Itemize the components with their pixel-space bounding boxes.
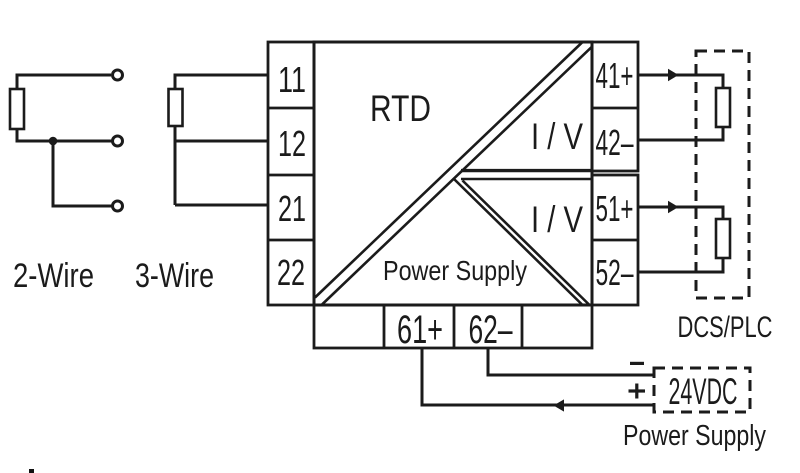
wire: 51+ output to load resistor xyxy=(638,207,723,219)
bottom divider 3 xyxy=(521,305,524,348)
right terminal block lower (51/52) xyxy=(592,175,638,305)
right terminal block upper (41/42) xyxy=(592,42,638,171)
terminal circle (2-wire middle) xyxy=(113,136,123,146)
resistor RTD sensor (3-wire) xyxy=(169,89,183,126)
wire: 3-wire lead to terminal 11 xyxy=(175,75,268,89)
svg-text:42–: 42– xyxy=(596,122,634,163)
wire: 3-wire lead to terminal 12 xyxy=(175,140,268,143)
wire: load resistor back to 42- xyxy=(638,127,723,140)
svg-text:11: 11 xyxy=(278,59,306,100)
DCS/PLC dashed box xyxy=(696,51,749,298)
svg-text:21: 21 xyxy=(278,188,306,229)
24VDC dashed box xyxy=(654,368,750,412)
svg-text:3-Wire: 3-Wire xyxy=(135,257,214,295)
bottom terminal row xyxy=(314,305,592,348)
svg-text:DCS/PLC: DCS/PLC xyxy=(678,311,773,344)
svg-text:I / V: I / V xyxy=(531,115,583,157)
svg-text:RTD: RTD xyxy=(370,87,431,129)
wire: 2-wire middle lead xyxy=(17,129,112,141)
svg-text:12: 12 xyxy=(278,123,306,164)
svg-text:2-Wire: 2-Wire xyxy=(13,257,94,295)
svg-text:51+: 51+ xyxy=(596,188,634,229)
svg-text:Power Supply: Power Supply xyxy=(383,255,527,286)
svg-text:52–: 52– xyxy=(596,252,634,293)
svg-text:41+: 41+ xyxy=(596,55,634,96)
isolator internal diagonal (branch, upper line) xyxy=(454,179,583,305)
isolator internal diagonal (branch, lower line) xyxy=(463,181,590,306)
terminal divider 41/42 xyxy=(592,107,638,110)
label minus sign xyxy=(630,362,644,365)
arrow on 41+ wire xyxy=(668,69,679,81)
wire: 41+ output to load resistor xyxy=(638,75,723,88)
svg-text:61+: 61+ xyxy=(397,308,443,352)
resistor DCS load (lower) xyxy=(716,219,730,258)
label plus sign (horizontal bar) xyxy=(629,389,646,392)
terminal circle (2-wire bottom) xyxy=(113,201,123,211)
svg-text:62–: 62– xyxy=(469,308,513,352)
bottom divider 2 xyxy=(453,305,456,348)
arrow on plus wire xyxy=(554,399,565,411)
wire: 61+ to power supply plus xyxy=(422,348,654,405)
resistor DCS load (upper) xyxy=(716,88,730,127)
isolator internal diagonal (main, lower line) xyxy=(322,46,593,305)
wire: 2-wire top lead xyxy=(17,75,111,89)
left terminal block xyxy=(268,42,314,305)
isolator internal diagonal (main, upper line) xyxy=(315,43,582,298)
label plus sign (vertical bar) xyxy=(635,384,638,399)
svg-text:24VDC: 24VDC xyxy=(669,371,738,412)
terminal circle (2-wire top) xyxy=(113,70,123,80)
artifact mark bottom-left xyxy=(29,469,34,473)
svg-text:I / V: I / V xyxy=(531,198,583,240)
wire: 2-wire bottom lead xyxy=(53,141,112,206)
svg-text:Power Supply: Power Supply xyxy=(623,420,766,452)
terminal divider 12/21 xyxy=(268,174,314,177)
resistor RTD sensor (2-wire) xyxy=(10,89,24,129)
terminal divider 51/52 xyxy=(592,239,638,242)
terminal divider 11/12 xyxy=(268,107,314,110)
bottom divider 1 xyxy=(383,305,386,348)
terminal divider 21/22 xyxy=(268,239,314,242)
isolator internal horizontal divider (thick) xyxy=(461,169,593,172)
main isolator box xyxy=(314,42,592,305)
isolator internal horizontal divider (thin) xyxy=(461,178,593,180)
wire: 62- to power supply minus xyxy=(488,348,654,375)
wire: 3-wire lead to terminal 21 xyxy=(175,204,268,207)
wire: load resistor back to 52- xyxy=(638,258,723,272)
svg-text:22: 22 xyxy=(277,252,305,293)
wire: 3-wire vertical from resistor bottom xyxy=(174,126,177,205)
node junction (2-wire) xyxy=(49,137,58,146)
arrow on 51+ wire xyxy=(668,201,679,213)
